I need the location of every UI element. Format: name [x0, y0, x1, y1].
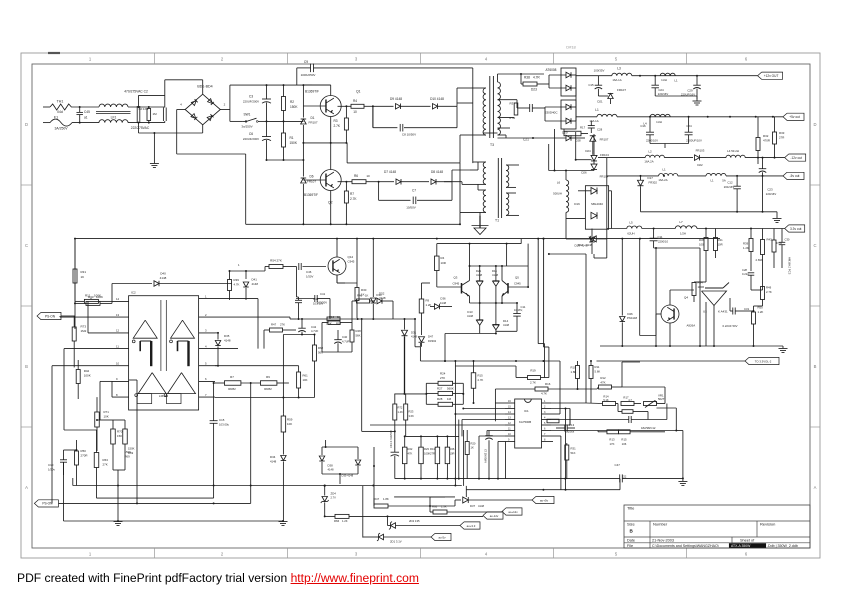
svg-text:222/275VAC: 222/275VAC — [131, 126, 150, 130]
svg-text:D16: D16 — [574, 202, 580, 206]
svg-text:1K: 1K — [81, 275, 85, 279]
svg-text:10: 10 — [508, 433, 511, 436]
resistor R4b 10R secondary drive — [435, 256, 440, 271]
resistor R70 15K — [111, 429, 116, 444]
wire D8 to drive transformer — [451, 170, 453, 182]
svg-text:R73: R73 — [81, 325, 87, 329]
IC1 right pins — [542, 402, 552, 404]
connector flag ao+5v — [532, 496, 554, 503]
svg-text:8: 8 — [544, 439, 546, 442]
resistor R39 1.2K — [749, 239, 753, 252]
IC2 right pin stubs — [199, 298, 215, 300]
svg-text:C12: C12 — [727, 181, 733, 185]
resistor R10 1.8K — [576, 366, 580, 379]
transistor Q1 B1369T/F — [320, 96, 341, 117]
diode D25 FR104 — [591, 164, 597, 170]
wire misc bus to pwm — [414, 319, 416, 347]
svg-text:502T: 502T — [658, 397, 665, 401]
wire Q5 collector emitter — [501, 266, 503, 281]
svg-text:10: 10 — [116, 362, 120, 366]
transistor Q12 C945 — [328, 257, 346, 275]
svg-text:File: File — [627, 544, 633, 548]
connector flag ao-5v — [431, 533, 451, 540]
resistor R69 150K — [123, 429, 128, 444]
svg-text:SBL2040: SBL2040 — [591, 202, 603, 206]
diode D11 4148 — [495, 266, 497, 281]
wire Q2 emitter — [330, 191, 332, 225]
capacitor C42 4.7UF — [298, 327, 306, 329]
svg-text:204/16V: 204/16V — [724, 185, 735, 189]
svg-text:B1369T/F: B1369T/F — [305, 90, 319, 94]
wire row link — [257, 299, 259, 349]
resistor R33 2.7K — [773, 132, 777, 144]
svg-text:150K: 150K — [125, 450, 132, 454]
resistor RX bleeder 1M — [147, 109, 151, 121]
wire C15 bottom tie — [97, 497, 214, 499]
wire drive top rail — [470, 265, 529, 267]
svg-text:D17: D17 — [648, 176, 654, 180]
resistor R27 560K — [438, 391, 453, 395]
svg-text:10K: 10K — [104, 415, 109, 419]
svg-text:L1: L1 — [595, 108, 599, 112]
wire R6 node — [379, 181, 394, 183]
resistor R31b 51K — [565, 445, 569, 460]
svg-text:R22: R22 — [408, 447, 413, 451]
svg-text:D40: D40 — [160, 272, 166, 276]
capacitor C29 220UF/16V — [693, 84, 701, 86]
svg-text:2.7K: 2.7K — [478, 378, 484, 382]
svg-text:14: 14 — [508, 411, 511, 414]
svg-text:4: 4 — [205, 344, 207, 348]
ground pwm right — [678, 481, 687, 483]
svg-text:C945: C945 — [453, 282, 460, 286]
svg-text:C9: C9 — [304, 60, 308, 64]
wire top snubber return — [498, 73, 522, 75]
svg-text:220/16V: 220/16V — [658, 92, 669, 96]
diode D24 FR104 — [593, 134, 595, 155]
capacitor C28b snubber — [588, 125, 595, 127]
resistor R54 27K — [269, 265, 283, 269]
svg-text:4.7UF: 4.7UF — [342, 340, 350, 344]
svg-text:2.69K: 2.69K — [756, 258, 763, 262]
wire pwm upper rails — [420, 360, 560, 362]
svg-text:16A.1A: 16A.1A — [612, 78, 621, 82]
svg-text:470/275VAC C2: 470/275VAC C2 — [124, 90, 148, 94]
svg-text:4.7: 4.7 — [628, 398, 632, 402]
wire PS-ON net — [61, 315, 75, 317]
svg-text:K A431: K A431 — [718, 310, 728, 314]
svg-text:51K: 51K — [571, 451, 576, 455]
capacitor C3 bulk 220u/200V — [262, 98, 271, 100]
border zone tick marks — [154, 53, 156, 64]
svg-text:D21: D21 — [597, 100, 603, 104]
wire -5 sense down — [736, 211, 738, 213]
svg-text:100K: 100K — [84, 374, 91, 378]
svg-text:1M: 1M — [447, 397, 452, 401]
svg-text:5A: 5A — [722, 179, 726, 183]
svg-text:27R: 27R — [430, 452, 435, 456]
svg-text:C8 10/50V: C8 10/50V — [402, 133, 416, 137]
svg-text:R28: R28 — [437, 397, 443, 401]
diode D38 4148 ps-on logic — [319, 456, 325, 461]
svg-text:C945: C945 — [514, 282, 521, 286]
diode D1 FR107 — [301, 119, 307, 124]
svg-text:16A.2A: 16A.2A — [658, 178, 667, 182]
resistor R71 10K — [95, 412, 100, 427]
svg-text:5: 5 — [615, 552, 618, 557]
resistor R1 150K — [282, 133, 286, 147]
resistor R28 1M — [438, 402, 453, 406]
inductor L7 1/2H — [675, 226, 697, 229]
svg-text:F1: F1 — [54, 116, 58, 120]
wire pin7 row — [215, 397, 283, 399]
svg-text:R1: R1 — [290, 136, 294, 140]
wire IC1 left loop bus — [494, 389, 496, 421]
svg-text:4148: 4148 — [328, 468, 334, 472]
svg-text:C:\Documents and Settings\WANG: C:\Documents and Settings\WANGZHAO\ — [652, 544, 719, 548]
svg-text:R7: R7 — [230, 375, 234, 379]
wire HV- node — [267, 159, 304, 161]
svg-text:S30D40C: S30D40C — [544, 111, 558, 115]
svg-text:10/16V,: 10/16V, — [514, 308, 523, 312]
svg-text:R26: R26 — [450, 447, 455, 451]
wire D10 to primary bus — [457, 102, 473, 104]
resistor R37b snubber — [564, 131, 581, 136]
svg-text:D: D — [25, 122, 28, 127]
svg-text:R4: R4 — [441, 256, 445, 260]
wire primary mid row to transformer — [347, 162, 460, 164]
svg-text:X2:1KV: X2:1KV — [138, 107, 148, 111]
wire C11 column down — [655, 248, 657, 346]
svg-text:1K: 1K — [365, 294, 369, 298]
diode D10 4148 — [433, 104, 438, 110]
svg-text:a1: a1 — [84, 115, 88, 119]
svg-text:R13: R13 — [430, 447, 435, 451]
wire T1 sec taps — [506, 164, 519, 166]
svg-text:C15: C15 — [588, 83, 594, 87]
wire R4 to snubber — [372, 106, 374, 127]
PWM IC1 KA7500B body — [515, 399, 542, 448]
wire VR1 side loop — [666, 404, 668, 420]
node row under Q12 — [297, 318, 374, 320]
capacitor C30 0.022 — [779, 241, 786, 243]
capacitor C41 103/50V — [314, 295, 316, 302]
resistor R41 10R — [714, 238, 718, 251]
potentiometer VR1 502T — [644, 402, 657, 406]
svg-text:PN4148: PN4148 — [627, 316, 638, 320]
svg-text:21-Nov-2003: 21-Nov-2003 — [652, 538, 674, 542]
wire resistor cluster top row — [406, 435, 459, 437]
svg-text:R63: R63 — [103, 458, 109, 462]
capacitor C24 220/16V — [651, 84, 659, 86]
wire filter to X-cap bottom — [128, 122, 165, 124]
transformer T1 drive primary — [483, 162, 486, 184]
resistor R6 10 — [352, 180, 366, 184]
capacitor CX X2 film — [136, 106, 138, 123]
svg-text:R61: R61 — [303, 374, 309, 378]
resistor R23 100K — [419, 447, 424, 464]
svg-text:D8 4148: D8 4148 — [431, 170, 443, 174]
capacitor C15 100/35V — [595, 84, 603, 86]
resistor R34 100R — [692, 283, 696, 296]
wire diode OR top/bottom — [322, 446, 358, 448]
wire regulation bottom rail — [600, 345, 783, 347]
line filter LF1 top winding — [99, 104, 128, 107]
svg-text:R9: R9 — [266, 375, 270, 379]
svg-text:R24: R24 — [440, 372, 446, 376]
svg-text:4148: 4148 — [440, 301, 447, 305]
transformer T1 core — [497, 158, 499, 218]
svg-text:1M2: 1M2 — [81, 329, 87, 333]
svg-text:2200/10V: 2200/10V — [646, 139, 658, 143]
wire Q3 Q5 bases — [437, 286, 462, 288]
svg-text:R17: R17 — [580, 126, 586, 130]
wire T3 bottom tap row — [497, 132, 499, 134]
resistor R42 100K — [76, 370, 80, 384]
svg-text:1M: 1M — [153, 112, 158, 116]
transformer T3 core — [489, 76, 491, 138]
svg-text:D6: D6 — [310, 175, 314, 179]
wire drive top to transformer — [456, 88, 458, 106]
resistor R66 1.2K — [335, 514, 349, 518]
wire mid verticals to bottom — [136, 380, 138, 503]
svg-text:D37: D37 — [470, 504, 476, 508]
svg-text:5.1K: 5.1K — [603, 398, 609, 402]
svg-text:270R: 270R — [81, 454, 88, 458]
wire ic1 bottom to flags — [429, 497, 431, 506]
resistor R14 5.1K — [603, 402, 616, 406]
svg-text:C945: C945 — [348, 260, 355, 264]
diode D19 4148 — [591, 236, 597, 242]
svg-text:15K: 15K — [117, 434, 122, 438]
diode D46 PN4148 — [621, 239, 623, 316]
svg-text:RR82: RR82 — [264, 387, 272, 391]
resistor R22 47K — [402, 447, 407, 464]
svg-text:L4 51UH: L4 51UH — [727, 149, 739, 153]
resistor R7b RR82 — [225, 381, 241, 386]
top margin doc mark — [48, 52, 60, 54]
transistor Q3 C945 — [461, 283, 463, 294]
capacitor C24b 2200UF/10V — [685, 131, 693, 133]
resistor R30 1K — [355, 288, 359, 301]
resistor R3 2.7K — [344, 118, 348, 130]
svg-text:FR107: FR107 — [309, 121, 318, 125]
diode D22 FR103 — [695, 155, 700, 161]
diode D21b 4148 — [479, 266, 481, 281]
title block row lines — [624, 520, 810, 522]
svg-text:13: 13 — [508, 417, 511, 420]
svg-text:FR103: FR103 — [696, 149, 705, 153]
capacitor C28 0.22u — [748, 272, 755, 274]
svg-text:D21: D21 — [476, 269, 482, 273]
wire R36 to R34 — [694, 281, 706, 283]
resistor R11 100K — [84, 299, 98, 303]
svg-text:D9 4148: D9 4148 — [390, 97, 402, 101]
resistor R16c 1K — [327, 317, 340, 321]
wire T3 sec taps right — [498, 99, 518, 101]
svg-text:D12: D12 — [578, 243, 584, 247]
svg-text:T3: T3 — [490, 143, 494, 147]
svg-text:A: A — [814, 485, 817, 490]
svg-text:10K: 10K — [287, 422, 292, 426]
svg-text:4148: 4148 — [586, 243, 593, 247]
inductor L2 -12V — [645, 155, 664, 157]
resistor R47c 1.8K — [374, 504, 388, 508]
svg-text:PS-ON: PS-ON — [45, 314, 56, 318]
wire T1 return to chassis arrow — [479, 215, 481, 228]
svg-text:L7: L7 — [679, 220, 683, 224]
wire Q12 emitter node — [336, 275, 338, 283]
wire AC neutral input — [43, 122, 50, 124]
svg-text:R48: R48 — [356, 329, 362, 333]
svg-text:150K: 150K — [290, 105, 298, 109]
svg-text:14: 14 — [116, 297, 120, 301]
wire main vertical buses to PWM — [537, 239, 539, 344]
svg-text:D35: D35 — [224, 334, 230, 338]
svg-text:1: 1 — [544, 400, 546, 403]
diode D36b 4148 — [435, 304, 440, 310]
svg-text:1.8K: 1.8K — [383, 497, 389, 501]
svg-text:182/50s: 182/50s — [565, 430, 575, 434]
svg-text:D10 4148: D10 4148 — [430, 97, 444, 101]
diode pack D16 SBL2040 — [585, 186, 608, 230]
svg-text:47K: 47K — [408, 452, 413, 456]
connector flag PS-ON upper — [37, 312, 61, 319]
wire 3.3V rail from D16 — [607, 228, 627, 230]
diode D35 4148 — [215, 298, 258, 300]
svg-text:10R: 10R — [450, 452, 455, 456]
svg-text:1.2K: 1.2K — [342, 519, 348, 523]
svg-text:6: 6 — [205, 377, 207, 381]
svg-text:47K: 47K — [600, 381, 605, 385]
svg-text:4: 4 — [544, 417, 546, 420]
svg-text:11: 11 — [508, 428, 511, 431]
wire bridge DC+ to cap bank — [220, 109, 230, 111]
svg-text:D28: D28 — [575, 139, 581, 143]
svg-text:4.7R: 4.7R — [509, 116, 516, 120]
capacitor C45 across line — [76, 111, 83, 113]
wire 3.3v reg link — [705, 302, 707, 346]
svg-text:4148: 4148 — [411, 335, 417, 339]
svg-text:R68: R68 — [432, 505, 438, 509]
svg-text:R14: R14 — [603, 395, 609, 399]
resistor R32 470R — [756, 138, 760, 151]
wire c13 side bus — [527, 244, 529, 287]
capacitor C8 10/50V — [399, 124, 401, 132]
capacitor C31 0.22UF 50V — [732, 308, 734, 315]
capacitor C7 10/50V — [378, 182, 380, 201]
svg-text:4148: 4148 — [503, 323, 509, 327]
svg-text:100R: 100R — [698, 285, 705, 289]
svg-text:Q1: Q1 — [356, 90, 361, 94]
capacitor C6 bulk 220u/200V — [262, 136, 271, 138]
wire cluster bottom — [283, 397, 314, 399]
wire live to filter — [74, 106, 99, 108]
transistor Q2 B1369T/F — [320, 170, 341, 191]
svg-text:C40: C40 — [342, 335, 348, 339]
wire -5V common rail — [641, 211, 778, 213]
resistor R33b 100K — [86, 301, 100, 305]
diode D37 4148 — [463, 497, 469, 503]
resistor R50b 270R — [75, 451, 79, 465]
connector flag PS-ON lower — [34, 500, 58, 507]
svg-text:10/50V: 10/50V — [406, 206, 416, 210]
svg-text:D20: D20 — [562, 131, 568, 135]
wire HV+ top rail — [262, 84, 312, 86]
svg-text:4148: 4148 — [224, 339, 231, 343]
svg-text:AM16HZ PC3: AM16HZ PC3 — [788, 257, 792, 275]
diode D7 4148 — [396, 179, 401, 185]
svg-text:R2: R2 — [290, 100, 294, 104]
connector flag ao+3.3 — [460, 522, 480, 529]
svg-text:D: D — [813, 122, 816, 127]
capacitor C9 100K/250V snubber — [303, 84, 330, 86]
diode D13 4148 — [479, 303, 481, 320]
wire rectifier feed rail — [549, 170, 594, 172]
inductor L1d 5A -5V — [706, 173, 726, 176]
svg-text:04d: 04d — [57, 110, 63, 114]
svg-text:R39: R39 — [234, 278, 240, 282]
fuse F1 — [50, 119, 72, 126]
svg-text:SW1: SW1 — [244, 113, 251, 117]
resistor R16 4.7K — [535, 387, 548, 391]
wire R7R9 junction down — [250, 383, 252, 503]
svg-text:C6: C6 — [249, 132, 253, 136]
resistor R13 17K — [607, 430, 619, 434]
svg-text:13: 13 — [116, 313, 120, 317]
svg-text:27K: 27K — [280, 323, 285, 327]
svg-text:2200/10: 2200/10 — [658, 240, 669, 244]
diode D34 4148 — [281, 456, 287, 461]
svg-text:C43 4.7UF/50V: C43 4.7UF/50V — [389, 430, 393, 448]
diode D40 4148 — [112, 283, 152, 285]
svg-text:16A.1A: 16A.1A — [589, 119, 598, 123]
svg-text:C21: C21 — [523, 138, 529, 142]
svg-text:D7 4148: D7 4148 — [384, 170, 396, 174]
svg-text:2: 2 — [544, 406, 546, 409]
svg-text:2: 2 — [205, 313, 207, 317]
svg-text:R38: R38 — [524, 76, 530, 80]
svg-text:LF1: LF1 — [111, 115, 117, 119]
svg-text:ao+12v: ao+12v — [508, 510, 518, 514]
svg-text:D31: D31 — [411, 331, 417, 335]
resistor R7 2.7K — [344, 191, 348, 203]
svg-text:FR107: FR107 — [617, 88, 626, 92]
resistor R15c 106 — [619, 430, 631, 434]
capacitor C47 222 — [619, 474, 621, 482]
svg-text:1/2H: 1/2H — [680, 232, 686, 236]
svg-text:220/16V: 220/16V — [766, 192, 777, 196]
svg-text:R62: R62 — [318, 346, 324, 350]
inductor L4 51UH — [726, 155, 745, 157]
capacitor C46 1/50V — [298, 263, 300, 270]
resistor R19 2.7K — [528, 376, 541, 380]
wire bridge AC2 to doubler switch rail — [177, 109, 185, 111]
rectifier pack D1A AT6008 — [561, 68, 576, 96]
wire q3q5 collector feed — [437, 243, 521, 245]
svg-text:2: 2 — [221, 57, 224, 62]
resistor R9c RR82 — [261, 381, 277, 386]
svg-text:R10: R10 — [571, 366, 577, 370]
svg-text:3A/250V: 3A/250V — [54, 127, 68, 131]
node primary mid row — [303, 142, 346, 144]
svg-text:1: 1 — [238, 263, 240, 267]
resistor R39b 4.7K — [228, 280, 232, 291]
svg-text:R43: R43 — [767, 238, 773, 242]
diode D14 4148 — [495, 303, 497, 325]
wire vertical x458 bus — [458, 420, 460, 479]
svg-text:D47: D47 — [428, 335, 434, 339]
